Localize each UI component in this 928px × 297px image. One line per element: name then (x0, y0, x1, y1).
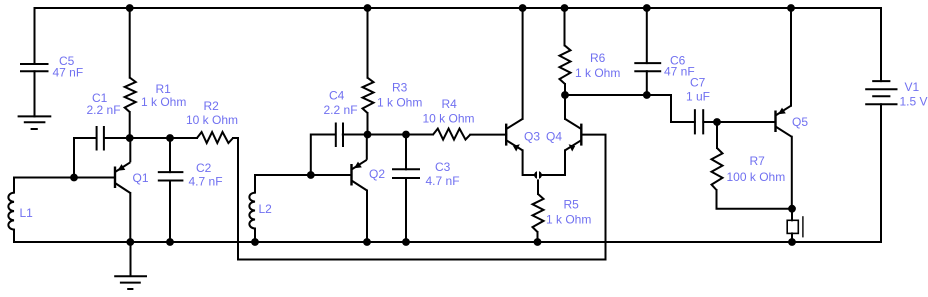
node stage1 C2/R2 (166, 134, 174, 142)
svg-text:2.2 nF: 2.2 nF (324, 103, 358, 117)
wire C7 right lead (703, 121, 717, 123)
wire node row stage2 (343, 134, 433, 136)
wire R7 top lead (716, 122, 718, 148)
svg-text:10 k Ohm: 10 k Ohm (186, 113, 238, 127)
svg-text:L2: L2 (259, 202, 273, 216)
wire down to C7 (671, 95, 695, 122)
wire node95 horizontal (565, 94, 671, 96)
svg-text:4.7 nF: 4.7 nF (189, 175, 223, 189)
resistor R4 (433, 129, 470, 140)
transistor Q2 (352, 135, 368, 191)
node C7 / R7 / Q5 base (713, 118, 721, 126)
svg-text:Q5: Q5 (792, 115, 808, 129)
wire R3 top lead (367, 8, 369, 78)
wire R1 bottom lead (129, 112, 131, 138)
wire L2 bottom lead (254, 229, 256, 243)
node ground rail C3 (402, 238, 410, 246)
wire R6 bottom lead (564, 84, 566, 95)
wire R1 top lead (129, 8, 131, 78)
wire R7 bottom lead (717, 190, 793, 209)
ground main (below Q1 emitter) (114, 276, 147, 289)
inductor L1 (8, 193, 14, 230)
node output (Q5 collector / R7) (788, 205, 796, 213)
svg-text:1 uF: 1 uF (686, 90, 710, 104)
wire square to ground rail (791, 233, 793, 242)
svg-text:10 k Ohm: 10 k Ohm (423, 112, 475, 126)
node common emitters Q3 Q4 R5 (striped dot) (534, 171, 542, 180)
svg-text:100 k Ohm: 100 k Ohm (727, 170, 786, 184)
svg-text:1 k Ohm: 1 k Ohm (575, 66, 620, 80)
resistor R7 (712, 148, 723, 190)
wire L1 top lead (14, 178, 74, 193)
node top rail R3 (364, 4, 372, 12)
battery V1 (865, 81, 897, 104)
svg-text:C4: C4 (329, 89, 345, 103)
svg-text:L1: L1 (20, 206, 34, 220)
node C6 bottom (643, 91, 651, 99)
wire Q2 base lead (311, 174, 351, 176)
wire Q4 base to feedback rail (584, 135, 606, 260)
capacitor C2 (158, 172, 184, 180)
wire C1 left lead (74, 138, 97, 178)
svg-text:C7: C7 (690, 76, 706, 90)
resistor R2 (197, 132, 233, 143)
wire R3 bottom lead (367, 113, 369, 135)
capacitor C7 (695, 109, 703, 134)
svg-text:Q3: Q3 (524, 130, 540, 144)
node R6 / Q4 collector (561, 91, 569, 99)
svg-text:1 k Ohm: 1 k Ohm (141, 95, 186, 109)
wire R5 top lead (537, 175, 539, 194)
wire Q2 emitter to ground rail (366, 191, 368, 243)
wire Q5 base lead (717, 121, 776, 123)
svg-text:R7: R7 (750, 154, 766, 168)
capacitor C6 (634, 63, 661, 71)
resistor R3 (363, 78, 374, 113)
transistor Q1 (115, 138, 130, 193)
wire bottom ground rail (14, 241, 881, 243)
wire C3 top lead (405, 135, 407, 170)
node top rail Q3 collector (519, 4, 527, 12)
wire V1 top lead (880, 8, 882, 81)
wire C4 left lead (311, 135, 336, 176)
svg-text:R2: R2 (204, 99, 220, 113)
node ground rail Q2 (363, 238, 371, 246)
transistor Q4 (565, 119, 581, 152)
svg-text:R3: R3 (392, 81, 408, 95)
wire output node to square (791, 209, 793, 221)
wire C6 top lead (646, 8, 648, 63)
resistor R5 (533, 194, 544, 232)
capacitor C1 (97, 126, 104, 151)
svg-text:1 k Ohm: 1 k Ohm (546, 213, 591, 227)
wire ground stub below rail (130, 242, 132, 276)
wire V1 bottom lead (880, 104, 882, 242)
wire C5 top lead (34, 8, 36, 64)
node ground rail output (788, 238, 796, 246)
wire R2 right lead down (233, 138, 238, 260)
wire L1 bottom lead (13, 230, 15, 242)
svg-text:1.5 V: 1.5 V (900, 95, 928, 109)
svg-text:V1: V1 (905, 80, 920, 94)
node top rail R1 (126, 4, 134, 12)
node top rail Q5 emitter (787, 4, 795, 12)
node Q2 base / L2 / C4 (307, 171, 315, 179)
wire Q5 collector to output node (791, 137, 793, 209)
inductor L2 (249, 193, 255, 229)
svg-text:R4: R4 (442, 97, 458, 111)
svg-text:4.7 nF: 4.7 nF (426, 174, 460, 188)
wire Q1 emitter to ground rail (129, 193, 131, 242)
resistor R1 (125, 78, 136, 112)
transistor Q5 (776, 106, 792, 137)
wire C3 bottom lead (405, 178, 407, 242)
output terminal square (787, 216, 803, 237)
wire L2 top lead (255, 175, 311, 193)
node ground rail L2 (251, 238, 259, 246)
wire top power rail (35, 7, 882, 9)
node ground rail Q1 (126, 238, 134, 246)
wire C2 top lead (169, 138, 171, 172)
wire R4 right lead (470, 134, 506, 136)
transistor Q3 (506, 119, 522, 152)
svg-text:R5: R5 (564, 198, 580, 212)
svg-text:Q1: Q1 (133, 171, 149, 185)
wire Q3 collector to top rail (522, 8, 524, 119)
node top rail R6 (561, 4, 569, 12)
wire node row stage1 (104, 137, 197, 139)
svg-text:2.2 nF: 2.2 nF (87, 103, 121, 117)
wire C6 bottom lead (646, 71, 648, 95)
svg-text:C3: C3 (435, 160, 451, 174)
wire Q4 emitter to common node (538, 150, 565, 175)
node stage2 R3/C4 (364, 131, 372, 139)
wire feedback rail (R2 to Q4 base) (238, 259, 606, 261)
svg-text:R1: R1 (156, 82, 172, 96)
wire Q4 collector lead (564, 95, 566, 119)
node stage1 R1/C1 (126, 134, 134, 142)
capacitor C5 (20, 64, 49, 71)
svg-text:C2: C2 (196, 161, 212, 175)
svg-text:Q2: Q2 (369, 167, 385, 181)
wire C5 bottom lead (34, 71, 36, 116)
svg-text:Q4: Q4 (546, 130, 562, 144)
svg-text:1 k Ohm: 1 k Ohm (377, 96, 422, 110)
wire Q3 emitter to common node (523, 150, 538, 175)
ground under C5 (18, 116, 52, 129)
wire Q1 base lead (74, 177, 114, 179)
resistor R6 (560, 45, 571, 84)
wire Q5 emitter to top rail (790, 8, 792, 106)
svg-text:R6: R6 (590, 51, 606, 65)
node stage2 C3/R4 (402, 131, 410, 139)
wire R6 top lead (564, 8, 566, 45)
wire C2 bottom lead (169, 181, 171, 243)
node ground rail R5 (534, 238, 542, 246)
capacitor C3 (392, 169, 420, 178)
svg-text:47 nF: 47 nF (53, 66, 84, 80)
node top rail C6 (643, 4, 651, 12)
capacitor C4 (336, 123, 343, 148)
node Q1 base / L1 / C1 (70, 174, 78, 182)
wire R5 bottom lead (537, 232, 539, 242)
node ground rail C2 (166, 238, 174, 246)
